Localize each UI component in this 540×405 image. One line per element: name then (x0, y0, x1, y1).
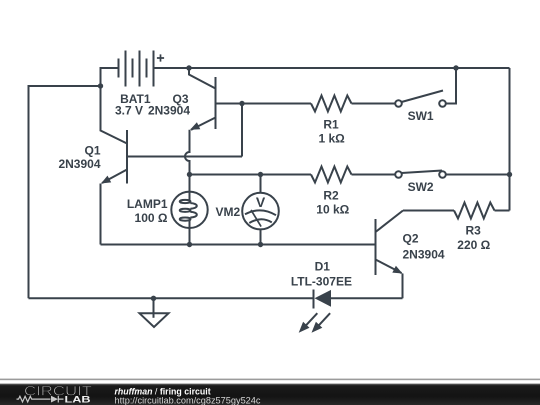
logo resistor squiggle (17, 396, 51, 402)
svg-text:R1: R1 (323, 118, 339, 132)
wire: R1 row left segment (Q3 base to R1) (242, 103, 311, 105)
svg-text:V: V (256, 194, 266, 210)
junction: top rail / Q3 collector (186, 65, 191, 70)
wire: Q1 emitter down to bottom rail (100, 184, 102, 245)
transistor Q3 emitter arrow (190, 122, 200, 130)
svg-text:Q2: Q2 (403, 231, 419, 245)
switch SW2 (395, 171, 446, 178)
svg-text:1 kΩ: 1 kΩ (318, 132, 345, 146)
svg-text:SW1: SW1 (408, 109, 434, 123)
transistor Q2 emitter arrow (392, 266, 402, 274)
junction: bottom rail / VM2 bottom (258, 242, 263, 247)
svg-text:100 Ω: 100 Ω (135, 211, 168, 225)
junction: Q3 base / Q1 base riser (239, 101, 244, 106)
wire: Q3 emitter down with hop over Q1 base wire (185, 130, 190, 175)
svg-text:VM2: VM2 (216, 205, 241, 219)
junction: lamp row / VM2 top (258, 172, 263, 177)
transistor Q1 emitter arrow (101, 176, 111, 184)
wire: left rail (node A down left side to LED row) (29, 86, 101, 298)
junction: bottom rail / LAMP1 bottom (187, 242, 192, 247)
junction: LED row / ground (151, 296, 156, 301)
junction: top rail / SW1 riser (453, 65, 458, 70)
svg-text:D1: D1 (315, 260, 331, 274)
resistor R2 (311, 167, 352, 183)
svg-text:R2: R2 (323, 189, 339, 203)
svg-text:220 Ω: 220 Ω (457, 238, 490, 252)
wire: right rail (top-right corner down to R3) (509, 68, 511, 211)
wire: SW2 to right rail (446, 174, 510, 176)
wire: Q2 collector to R3 (403, 210, 454, 212)
junction: battery left / Q1 collector / left rail (98, 83, 103, 88)
svg-text:Q1: Q1 (84, 143, 100, 157)
LED D1 light arrow 2 (312, 313, 331, 333)
wire: top rail (battery + to top-right corner) (154, 67, 510, 69)
wire: Q2 emitter down to LED row (402, 274, 404, 299)
thin gray rule above footer (0, 379, 540, 381)
LED D1 (314, 290, 332, 309)
transistor Q3 (189, 68, 242, 130)
svg-text:http://circuitlab.com/cg8z575g: http://circuitlab.com/cg8z575gy524c (115, 395, 262, 405)
resistor R3 (454, 203, 495, 219)
lamp LAMP1 (171, 175, 207, 245)
battery BAT1 (119, 51, 165, 87)
LED D1 light arrow 1 (299, 313, 318, 333)
logo diode symbol (51, 396, 58, 403)
svg-text:2N3904: 2N3904 (148, 103, 190, 117)
wire: R2 to SW2 (352, 174, 396, 176)
wire: LED row (left rail corner to D1 cathode) (29, 297, 314, 299)
resistor R1 (311, 96, 352, 112)
ground (140, 298, 169, 327)
junction: SW2 row / right rail (507, 172, 512, 177)
switch SW1 (395, 91, 446, 107)
svg-text:LAB: LAB (65, 395, 91, 405)
transistor Q2 (376, 211, 404, 276)
svg-text:2N3904: 2N3904 (58, 157, 100, 171)
wire: R2 row left segment (lamp node to R2) (190, 174, 312, 176)
wire: battery left lead to node A (101, 68, 119, 86)
wire: bottom rail (Q1 emitter to Q2 base) (101, 244, 376, 246)
svg-text:LTL-307EE: LTL-307EE (291, 274, 352, 288)
wire: SW1 to top rail (446, 68, 456, 104)
svg-text:2N3904: 2N3904 (403, 247, 445, 261)
transistor Q1 (101, 86, 243, 184)
voltmeter VM2 (242, 175, 279, 245)
wire: Q1 base riser to Q3 base node (241, 104, 243, 157)
svg-text:LAMP1: LAMP1 (127, 197, 168, 211)
wire: R3 to right rail (495, 210, 510, 212)
wire: D1 anode to Q2 emitter (331, 297, 403, 299)
svg-text:SW2: SW2 (408, 180, 434, 194)
svg-text:10 kΩ: 10 kΩ (316, 203, 349, 217)
svg-text:3.7 V: 3.7 V (115, 103, 143, 117)
svg-text:R3: R3 (466, 224, 482, 238)
junction: lamp row / Q3 emitter (187, 172, 192, 177)
wire: R1 to SW1 (352, 103, 396, 105)
